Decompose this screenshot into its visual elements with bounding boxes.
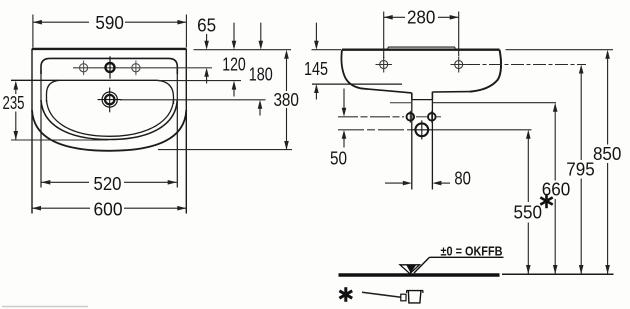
svg-text:180: 180 (249, 64, 273, 84)
svg-text:520: 520 (94, 174, 122, 194)
basin left outline (341, 50, 368, 89)
level symbol diagonal (414, 257, 430, 273)
basin top edge (342, 49, 500, 51)
bowl contour right corner (157, 80, 174, 104)
basin bottom left edge (368, 89, 412, 93)
drain stub (412, 92, 433, 100)
waste outlet circle (bold) (412, 120, 432, 139)
svg-text:120: 120 (222, 55, 246, 75)
basin underside line (312, 83, 402, 85)
tap hole centre line (73, 67, 212, 69)
basin outer left side + extension to 600 dim (31, 49, 33, 214)
drain hole (top view) (98, 88, 123, 113)
rim opening top edge (rounded) (41, 58, 177, 74)
svg-text:±0 = OKFFB: ±0 = OKFFB (441, 243, 503, 258)
svg-text:795: 795 (566, 159, 595, 179)
svg-text:80: 80 (454, 168, 471, 188)
front edge reference line (tangent) to the right (158, 149, 292, 151)
waste centre reference line right (432, 129, 531, 131)
wall mounting hole right (451, 57, 468, 73)
svg-text:50: 50 (330, 149, 347, 169)
svg-text:145: 145 (304, 59, 328, 79)
trap pipe sides (411, 100, 413, 190)
mounting holes reference right (for 795) (467, 64, 586, 66)
top edge reference right (for 850) (506, 49, 614, 51)
basin right outline (470, 50, 501, 92)
235 lower reference line (11, 139, 108, 141)
fixing hole right (bold) (428, 111, 436, 123)
stub bottom line (412, 99, 433, 101)
level symbol triangle (400, 265, 420, 274)
svg-text:850: 850 (593, 144, 622, 164)
siphon connection reference line (390, 102, 411, 104)
asterisk after 550 (540, 194, 552, 208)
svg-text:660: 660 (542, 180, 571, 200)
footnote icon: pop-up waste lever (362, 292, 401, 297)
footnote asterisk (339, 287, 352, 302)
svg-text:590: 590 (95, 13, 124, 33)
basin outer front curve (32, 110, 186, 151)
svg-text:65: 65 (197, 15, 216, 35)
bowl contour top line (extends left as 235 reference) (11, 79, 157, 81)
rim opening right side + extension to 520 dim (176, 70, 178, 188)
fixing hole left (bold) (407, 111, 415, 123)
tap hole middle (bold) (106, 56, 115, 78)
level symbol horizontal line (underline of label) (430, 256, 504, 258)
faint scan mark bottom left (2, 306, 88, 308)
tap hole left (optional, grey) (80, 61, 88, 76)
svg-text:380: 380 (273, 90, 299, 110)
basin outer right side + extension to 600 dim (185, 49, 187, 214)
top raised strip (388, 46, 455, 48)
svg-text:600: 600 (94, 199, 123, 219)
tap hole right (optional, grey) (132, 61, 140, 76)
wall mounting hole left (376, 57, 393, 73)
rim opening left side + extension to 520 dim (40, 70, 42, 188)
svg-text:280: 280 (407, 8, 436, 28)
drain centre reference line to the right (120, 99, 266, 101)
floor line right (thin) (502, 273, 614, 275)
basin bottom right edge (432, 91, 470, 93)
floor line under basin (thick) (339, 273, 500, 276)
fixing holes centre line (dashed) (338, 116, 404, 118)
top edge reference left (for 145) (312, 49, 342, 51)
svg-text:550: 550 (514, 202, 543, 222)
rear edge reference line to the right (194, 49, 292, 51)
bowl contour front curve (47, 100, 174, 136)
svg-text:235: 235 (3, 93, 25, 113)
basin outer rear edge (32, 48, 186, 50)
rim opening front curve (41, 100, 177, 140)
bowl line reference to the right (157, 80, 241, 82)
bowl contour left corner (47, 80, 60, 102)
waste centre line left (dashed) (338, 129, 412, 131)
